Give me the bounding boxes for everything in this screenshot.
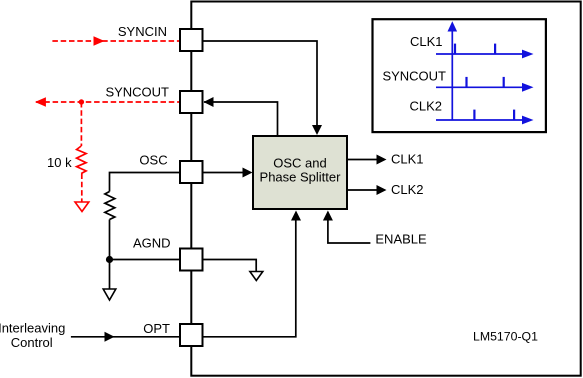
- svg-text:CLK1: CLK1: [410, 34, 443, 49]
- pin box AGND: [180, 249, 203, 271]
- wire CLK2 output: [348, 189, 377, 191]
- waveform CLK1 pulse 1: [454, 44, 456, 54]
- waveform CLK2 pulse 2: [513, 110, 515, 120]
- red dashed wire junction to 10k resistor: [80, 102, 82, 146]
- junction dot RT/AGND node: [106, 256, 113, 263]
- svg-text:Control: Control: [11, 335, 53, 350]
- svg-text:SYNCIN: SYNCIN: [118, 24, 167, 39]
- svg-text:Phase Splitter: Phase Splitter: [260, 170, 342, 185]
- waveform CLK2 pulse 1: [473, 110, 475, 120]
- red ground symbol below 10k: [75, 202, 89, 212]
- waveform CLK1 baseline: [436, 53, 523, 55]
- waveform SYNCOUT pulse 1: [465, 77, 467, 87]
- wire RT bottom to junction: [109, 220, 111, 260]
- pin box SYNCOUT: [180, 91, 203, 113]
- waveform CLK2 baseline: [436, 119, 523, 121]
- svg-text:CLK2: CLK2: [409, 99, 442, 114]
- svg-text:OSC and: OSC and: [273, 156, 326, 171]
- svg-text:10 k: 10 k: [47, 155, 72, 170]
- waveform CLK2 arrowhead: [522, 116, 534, 125]
- waveform time axis (vertical, blue): [451, 30, 453, 120]
- arrowhead CLK2 output: [377, 185, 387, 195]
- red dashed wire external sync input to SYNCIN: [52, 40, 179, 42]
- pin box OSC: [180, 161, 203, 183]
- wire SYNCIN to phase splitter (horizontal): [202, 41, 317, 125]
- arrowhead on interleaving control wire: [105, 332, 115, 342]
- wire ENABLE to phase splitter bottom: [328, 221, 371, 244]
- wire OSC pin to RT resistor: [110, 173, 182, 192]
- red arrowhead on SYNCOUT wire (pointing left): [35, 97, 46, 107]
- waveform SYNCOUT arrowhead: [522, 83, 534, 92]
- svg-text:CLK2: CLK2: [391, 182, 424, 197]
- ground symbol right of AGND: [250, 272, 263, 281]
- pin box OPT: [180, 324, 203, 346]
- svg-text:LM5170-Q1: LM5170-Q1: [473, 330, 538, 344]
- wire CLK1 output: [348, 159, 377, 161]
- arrowhead into phase splitter top (SYNCIN path): [312, 125, 322, 135]
- waveform inset box: [373, 19, 546, 132]
- svg-text:SYNCOUT: SYNCOUT: [382, 69, 446, 84]
- ground symbol below RT: [103, 289, 116, 300]
- arrowhead CLK1 output: [377, 155, 387, 165]
- red arrowhead on SYNCIN wire (pointing right): [94, 36, 105, 46]
- svg-text:OPT: OPT: [143, 321, 170, 336]
- wire AGND pin to right ground: [202, 260, 256, 272]
- svg-text:CLK1: CLK1: [391, 152, 424, 167]
- resistor R 10k (red): [77, 146, 87, 174]
- arrowhead into phase splitter left (OSC): [243, 168, 253, 178]
- waveform axis arrowhead (up): [448, 21, 458, 31]
- wire interleaving control to OPT pin: [71, 336, 181, 338]
- resistor RT (OSC timing resistor): [105, 192, 115, 220]
- wire junction to AGND pin: [110, 259, 182, 261]
- arrowhead into SYNCOUT pin (pointing left): [204, 97, 214, 107]
- arrowhead into phase splitter bottom (ENABLE path): [323, 211, 333, 221]
- svg-text:SYNCOUT: SYNCOUT: [105, 85, 169, 100]
- pin box SYNCIN: [180, 29, 203, 51]
- waveform CLK1 arrowhead: [522, 50, 534, 59]
- waveform SYNCOUT pulse 2: [503, 77, 505, 87]
- wire OSC pin to phase splitter input: [202, 172, 243, 174]
- waveform CLK1 pulse 2: [494, 44, 496, 54]
- red dashed wire SYNCOUT to external (pointing left): [36, 101, 179, 103]
- svg-text:OSC: OSC: [139, 153, 167, 168]
- wire OPT pin to phase splitter bottom: [202, 221, 296, 337]
- wire junction down to ground: [109, 260, 111, 290]
- svg-text:ENABLE: ENABLE: [375, 232, 427, 247]
- op block U1 OSC and Phase Splitter: [253, 136, 347, 209]
- svg-text:Interleaving: Interleaving: [0, 321, 65, 336]
- IC boundary LM5170-Q1: [191, 2, 580, 376]
- red junction dot on SYNCOUT wire: [79, 99, 84, 104]
- svg-text:AGND: AGND: [133, 236, 171, 251]
- waveform SYNCOUT baseline: [436, 86, 523, 88]
- wire phase splitter to SYNCOUT pin: [204, 102, 278, 135]
- red dashed wire 10k resistor to ground: [81, 174, 83, 203]
- arrowhead into phase splitter bottom (OPT path): [291, 211, 301, 221]
